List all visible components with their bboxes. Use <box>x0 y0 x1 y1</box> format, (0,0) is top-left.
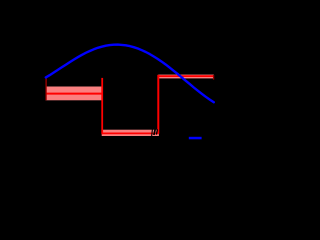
step mean line segment 1 <box>46 93 102 95</box>
right edge tick V4 (dim red) <box>213 75 215 80</box>
vertical connector V1 (left edge, dim red) <box>45 78 47 100</box>
blue curve <box>46 45 214 103</box>
step mean line segment 3 <box>158 75 214 77</box>
legend handle blue dash <box>189 137 202 140</box>
dark slash marks over band 2 right end <box>151 129 154 136</box>
vertical connector V3 <box>157 75 159 134</box>
confidence band segment 2 <box>102 130 159 136</box>
confidence band segment 3 <box>158 75 214 79</box>
confidence band segment 1 <box>46 87 102 101</box>
step mean line segment 2 <box>102 132 159 134</box>
vertical connector V2 <box>101 78 103 134</box>
